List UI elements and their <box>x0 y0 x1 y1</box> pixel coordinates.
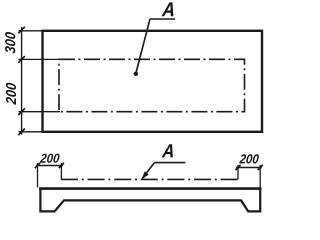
leader A plan: diagonal <box>136 19 150 74</box>
dimension text 200 plan <box>6 83 16 105</box>
tick elev left-inner <box>59 163 64 168</box>
label A plan <box>162 2 174 16</box>
tick elev right-inner <box>235 165 240 170</box>
elevation top edge <box>39 187 261 190</box>
tick elev left-outer <box>35 163 40 168</box>
tick elev right-outer <box>258 165 263 170</box>
label A elevation <box>162 144 173 157</box>
extension line zone top <box>19 58 60 60</box>
extension right outer <box>259 165 261 188</box>
zone A dash-dot rectangle (plan) <box>59 59 245 111</box>
extension right inner <box>237 165 239 180</box>
leader A plan: end dot <box>134 72 138 76</box>
extension line top edge <box>19 30 42 32</box>
extension left inner <box>60 163 62 180</box>
dimension text 200 elevation right <box>239 154 259 163</box>
elevation outline (faces, ribs, chamfers, underside) <box>40 188 260 211</box>
plan outer rectangle (slab contour) <box>43 31 263 132</box>
tick y131 <box>18 129 25 136</box>
right 200 dimension line (elevation) <box>236 167 262 169</box>
extension left outer <box>37 163 39 188</box>
tick y59 <box>18 56 25 63</box>
tick y111 <box>18 108 25 115</box>
dimension text 200 elevation left <box>40 154 60 163</box>
extension line bottom edge <box>19 131 42 133</box>
leader A elevation: shelf <box>155 162 186 164</box>
leader A plan: shelf <box>150 18 175 20</box>
left 200 dimension line (elevation) <box>36 165 63 167</box>
leader A elevation: arrowhead <box>141 171 148 180</box>
left dimension line <box>21 27 23 135</box>
tick y30 <box>18 27 25 34</box>
extension line zone bottom <box>19 111 61 113</box>
dimension text 300 <box>5 32 15 54</box>
leader A elevation: diagonal <box>143 163 155 178</box>
elevation zone A dash-dot axis <box>61 178 238 180</box>
